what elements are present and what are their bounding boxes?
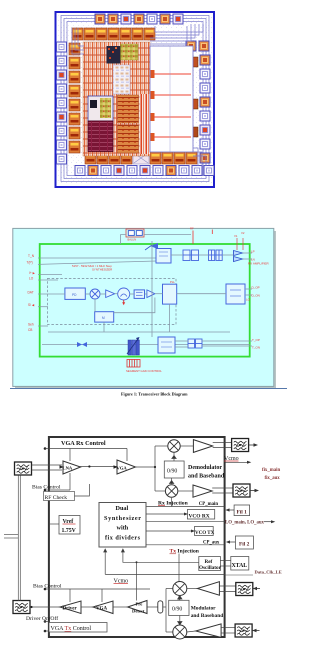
tx upconvert box <box>158 337 175 353</box>
svg-text:I+ ▶: I+ ▶ <box>29 271 36 275</box>
svg-text:Pre: Pre <box>136 602 143 607</box>
svg-text:BALUN: BALUN <box>128 238 137 242</box>
svg-text:LNA: LNA <box>63 466 73 471</box>
tx I input balun <box>236 583 253 596</box>
tx I wires <box>187 586 236 592</box>
bottom inner orange row <box>85 152 197 164</box>
LO out wire <box>146 521 225 523</box>
divider feedback box <box>95 312 114 322</box>
core right white RF block <box>150 46 193 152</box>
svg-text:Tx Injection: Tx Injection <box>170 549 200 555</box>
svg-text:DAT: DAT <box>28 291 34 295</box>
Vref box <box>59 516 80 535</box>
tx out wires <box>175 341 252 347</box>
svg-text:Seh: Seh <box>28 323 34 327</box>
svg-text:Ref: Ref <box>205 559 213 565</box>
tx Q input balun <box>235 624 252 637</box>
rx mixer quad 1 <box>183 250 199 261</box>
left inner orange blocks <box>69 43 80 153</box>
svg-text:Figure 1: Transceiver Block Di: Figure 1: Transceiver Block Diagram <box>121 392 188 397</box>
lo quad output box <box>226 284 245 304</box>
Fil 2 box <box>235 536 253 549</box>
tx amp Q (points left) <box>196 624 221 638</box>
rx quad wires <box>169 452 176 484</box>
green boundary box <box>40 244 250 357</box>
vco circle <box>118 288 130 305</box>
svg-text:RX AMPLIFIER: RX AMPLIFIER <box>248 262 270 266</box>
tx Q wires <box>187 628 235 634</box>
svg-text:Bias Control: Bias Control <box>32 485 61 491</box>
pll buffer triangle <box>106 290 115 298</box>
svg-text:LO: LO <box>246 298 251 302</box>
svg-text:Driver: Driver <box>63 607 78 612</box>
pin stub RF <box>192 231 194 245</box>
top pad row <box>95 14 183 24</box>
svg-text:0/90: 0/90 <box>172 607 182 613</box>
svg-text:LO_main, LO_aux: LO_main, LO_aux <box>225 521 265 526</box>
Fil 1 box <box>234 505 250 516</box>
core dark navy block <box>107 46 121 64</box>
segment gain trimmer <box>127 337 140 355</box>
svg-text:Synthesizer: Synthesizer <box>104 515 141 522</box>
pin stub quad2 <box>211 230 213 235</box>
Dual synthesizer box <box>99 503 146 548</box>
segment gain red hatch <box>127 360 140 368</box>
Driver amplifier (points left) <box>60 601 81 614</box>
main IC boundary box <box>49 437 225 637</box>
tx Q in arrow <box>252 629 259 632</box>
pll mixer circle <box>90 289 100 299</box>
right inner small blocks <box>190 57 198 137</box>
vdd stubs above rx amps <box>234 231 245 250</box>
vco rx wire <box>146 513 187 515</box>
driver-vga wire <box>81 606 93 608</box>
svg-text:Data_Clk_LE: Data_Clk_LE <box>255 570 282 575</box>
svg-text:VCO RX: VCO RX <box>189 514 210 520</box>
svg-text:Bias Control: Bias Control <box>33 584 62 590</box>
pll dashed box <box>47 279 176 325</box>
tx balun wire <box>30 606 60 608</box>
rx amp I <box>193 440 212 453</box>
core maroon block <box>88 121 113 152</box>
svg-text:Fil 2: Fil 2 <box>239 541 250 547</box>
tx injection vertical wire <box>178 554 180 601</box>
core blue framed box <box>88 96 113 121</box>
svg-text:Demodulator: Demodulator <box>188 465 222 471</box>
svg-text:SEGMENT GAIN CONTROL: SEGMENT GAIN CONTROL <box>126 369 162 373</box>
antenna feed double lines <box>4 476 20 601</box>
pll wires <box>38 293 163 295</box>
svg-text:fix_aux: fix_aux <box>265 476 281 481</box>
svg-text:M: M <box>102 316 105 320</box>
svg-text:VGA Rx Control: VGA Rx Control <box>61 440 106 447</box>
svg-text:T_ON: T_ON <box>252 346 260 350</box>
VCO RX box <box>187 510 214 520</box>
svg-text:XTAL: XTAL <box>232 563 248 569</box>
svg-text:Modulator: Modulator <box>191 606 216 612</box>
top balun red box <box>126 229 144 242</box>
core mid check blocks <box>118 95 139 123</box>
fil2 wire <box>226 540 236 543</box>
feedback wires <box>95 298 155 333</box>
tx mixer quad out <box>188 339 202 348</box>
svg-text:Oscillator: Oscillator <box>199 565 222 571</box>
tx I in arrow <box>253 587 260 590</box>
rf check wire <box>75 484 90 496</box>
VGA to mixers wire <box>135 446 168 491</box>
svg-text:RF Check: RF Check <box>45 495 68 501</box>
VGA Rx control wire <box>49 449 127 462</box>
Pre Detect amplifier (points left) <box>128 601 147 614</box>
svg-text:RF: RF <box>190 227 194 231</box>
svg-text:T_N: T_N <box>28 254 35 258</box>
rx I out arrow <box>249 443 258 446</box>
left pad column <box>57 42 67 164</box>
driver onoff wire dot <box>44 620 47 623</box>
vcmo arrow <box>225 461 252 464</box>
xtal wires <box>220 561 230 567</box>
top right routing wires <box>150 24 203 44</box>
lower long rail <box>42 241 250 345</box>
VGA Tx Control box <box>49 623 107 633</box>
lo box wires and labels <box>177 289 252 295</box>
svg-text:VCO TX: VCO TX <box>195 531 215 536</box>
rx I out wires <box>180 443 231 448</box>
svg-text:VGA: VGA <box>117 466 128 471</box>
bias wire <box>49 473 70 490</box>
rx mixer Q <box>165 485 177 497</box>
svg-text:fix_main: fix_main <box>262 468 280 473</box>
svg-text:and Baseband: and Baseband <box>191 613 224 619</box>
rx amp Q <box>193 485 212 497</box>
rx input wires <box>32 465 63 470</box>
svg-text:D_ON: D_ON <box>252 294 260 298</box>
RF Check box <box>44 492 75 501</box>
tx amp I (points left) <box>197 582 219 596</box>
lo arrow <box>264 520 275 523</box>
left input wires <box>38 258 156 326</box>
rx Q out wires <box>178 488 233 493</box>
rx Q output balun <box>233 484 250 497</box>
svg-text:Fil 1: Fil 1 <box>237 509 248 515</box>
die seal ring outlines <box>61 16 209 182</box>
svg-text:fix dividers: fix dividers <box>105 534 141 541</box>
lo router box <box>163 284 177 304</box>
svg-text:V1: V1 <box>234 234 238 238</box>
svg-text:V2: V2 <box>241 231 245 235</box>
rx I output balun <box>232 439 249 452</box>
bottom pad row <box>75 166 214 176</box>
bottom right routing wires <box>193 148 206 166</box>
svg-text:S/ ◀: S/ ◀ <box>28 303 35 307</box>
svg-text:CB: CB <box>28 328 32 332</box>
tx quad wires <box>178 596 182 626</box>
right pad column <box>200 55 210 163</box>
svg-text:with: with <box>117 525 129 532</box>
chip die photo frame <box>56 12 215 187</box>
svg-text:SYNTHESIZER: SYNTHESIZER <box>92 267 112 271</box>
svg-text:1.75V: 1.75V <box>62 528 77 534</box>
LNA to VGA wire <box>78 466 117 468</box>
core fine stripe base <box>83 42 150 156</box>
data wire <box>225 574 253 576</box>
rx output labels <box>248 250 270 266</box>
combiner pill <box>158 601 163 613</box>
0/90 rx box <box>164 461 184 478</box>
tx mixer I <box>173 582 187 596</box>
svg-text:PLL: PLL <box>170 280 175 284</box>
svg-text:D_OP: D_OP <box>252 286 260 290</box>
bias tx wire <box>49 589 150 602</box>
svg-text:0/90: 0/90 <box>167 469 177 475</box>
core olive check block <box>121 44 139 60</box>
svg-text:Detect: Detect <box>132 609 145 614</box>
rx chain top row : filter box <box>156 249 171 264</box>
top second row orange blocks <box>72 28 209 51</box>
svg-text:LP: LP <box>251 250 255 254</box>
rx mixer quad 2 <box>209 250 223 261</box>
VCO TX box <box>195 527 214 536</box>
pill to mixers wires <box>163 589 173 633</box>
left pin labels <box>27 254 36 332</box>
svg-text:PD: PD <box>72 293 77 297</box>
pre-pill wire <box>147 606 158 608</box>
caption divider rule <box>10 388 287 390</box>
fil1 wire <box>225 508 234 511</box>
rx Q out arrow <box>250 489 259 492</box>
rx output amplifiers <box>234 251 243 262</box>
svg-text:CP_main: CP_main <box>199 502 219 507</box>
svg-text:Dual: Dual <box>116 505 129 512</box>
phase detector box <box>65 288 85 299</box>
rx injection wire <box>146 498 225 507</box>
svg-text:VGA: VGA <box>96 607 108 612</box>
svg-text:Driver On/Off: Driver On/Off <box>26 615 58 622</box>
rx input balun <box>15 462 32 475</box>
cyan schematic panel shadow <box>15 231 276 389</box>
vco tx wire <box>146 530 195 532</box>
VGA tx amplifier (points left) <box>93 601 113 614</box>
vga tx control dot <box>44 630 47 633</box>
svg-text:T_OP: T_OP <box>252 338 260 342</box>
0/90 tx box <box>169 600 189 615</box>
top left routing wires <box>72 28 84 54</box>
tx mixer Q <box>173 625 187 639</box>
svg-text:VGA Tx Control: VGA Tx Control <box>51 626 92 632</box>
loop filter box <box>134 290 144 299</box>
cyan schematic panel <box>13 228 274 386</box>
die speckle background <box>58 15 212 185</box>
wire from balun <box>121 235 192 244</box>
rx mixer I <box>168 440 180 452</box>
VGA Rx amplifier <box>117 460 136 474</box>
svg-text:and Baseband: and Baseband <box>188 474 225 480</box>
svg-text:T(P): T(P) <box>27 261 33 265</box>
rx wires top row <box>171 253 252 259</box>
pll out buffer <box>147 290 155 298</box>
core white check column <box>113 65 130 94</box>
tx switch bowtie <box>77 342 87 347</box>
pre detect feedback wire <box>136 562 138 600</box>
ref osc wires <box>104 549 225 574</box>
LNA amplifier <box>63 461 81 474</box>
XTAL box <box>231 557 249 571</box>
tx input balun <box>13 601 30 614</box>
svg-text:LO: LO <box>29 277 34 281</box>
antenna switch symbol <box>145 243 158 250</box>
Ref Oscillator box <box>199 557 221 571</box>
core right stripe column <box>140 94 151 154</box>
vga-pre wire <box>113 606 128 608</box>
